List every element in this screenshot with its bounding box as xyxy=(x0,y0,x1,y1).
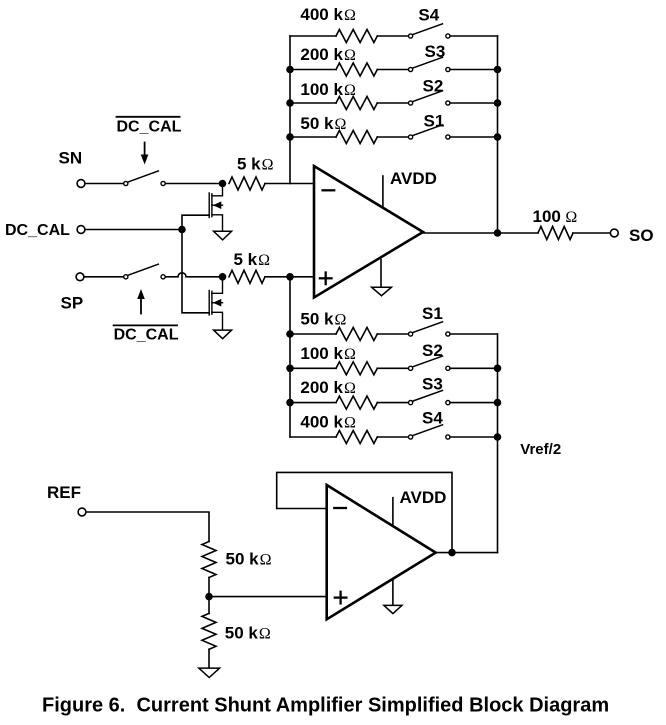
wire: row S4 resistor to switch xyxy=(377,436,408,438)
svg-text:50 kΩ: 50 kΩ xyxy=(225,624,271,643)
switch: SN DC_CAL switch xyxy=(124,171,165,186)
wire: row S2 resistor to switch xyxy=(377,102,408,104)
wire: U2 output to Vref/2 bus xyxy=(436,552,498,554)
wire: U1 output to SO xyxy=(423,232,538,234)
wire: SN terminal to switch xyxy=(85,183,123,185)
svg-text:SO: SO xyxy=(629,226,654,245)
label SN xyxy=(59,149,83,168)
svg-text:SP: SP xyxy=(61,294,84,313)
wire: SP switch to summing node (hop over gate line) xyxy=(166,273,223,277)
wire: AVDD supply stub (U1) xyxy=(382,176,384,207)
node: output / feedback junction xyxy=(494,229,502,237)
label switch S1 (top ladder) xyxy=(424,112,445,131)
switch S1 (top ladder) xyxy=(409,125,451,139)
wire: gate node down to Q2 gate (hops under SP wire) xyxy=(182,230,209,313)
svg-text:100 kΩ: 100 kΩ xyxy=(300,344,356,363)
label: value 200 k ohm xyxy=(300,45,356,64)
label SO xyxy=(629,226,654,245)
wire: row S4 switch to right bus xyxy=(450,436,498,438)
wire: row S2 switch to right bus xyxy=(450,367,498,369)
transistor Q2 (NMOS, lower calibration switch) xyxy=(209,281,222,330)
ground (Q1 source) xyxy=(214,231,232,240)
resistor 400 k&#937; (bot ladder, row S4) xyxy=(336,431,377,444)
terminal SN xyxy=(77,180,85,188)
wire: 100 ohm to SO terminal xyxy=(573,232,610,234)
wire: top ladder row S1 left segment xyxy=(290,136,336,138)
switch S2 (top ladder) xyxy=(409,91,451,105)
label: value 5 k ohm xyxy=(237,155,274,174)
svg-text:S3: S3 xyxy=(422,375,443,394)
wire: U2 feedback loop xyxy=(277,472,452,552)
label: DC_CAL (overline, upper) xyxy=(117,116,180,118)
wire: 5k resistor to op-amp non-inverting input xyxy=(265,276,314,278)
node: DC_CAL gate node xyxy=(178,226,186,234)
label: U2 non-inverting pin (+) xyxy=(335,592,347,604)
svg-text:AVDD: AVDD xyxy=(400,488,447,507)
wire: divider mid xyxy=(208,578,210,597)
wire: bot ladder row S3 left segment xyxy=(290,402,336,404)
switch S4 (top ladder) xyxy=(409,24,451,38)
svg-text:S3: S3 xyxy=(425,42,446,61)
ground (U2) xyxy=(384,580,402,614)
label switch S2 (bottom ladder) xyxy=(422,341,443,360)
resistor 50 k&#937; (bot ladder, row S1) xyxy=(336,328,377,341)
label switch S1 (bottom ladder) xyxy=(422,304,443,323)
node: top ladder left bus junction xyxy=(286,99,294,107)
wire: AVDD supply stub (U2) xyxy=(392,498,394,526)
node: bottom ladder right bus junction xyxy=(494,433,502,441)
svg-text:DC_CAL: DC_CAL xyxy=(114,327,179,344)
wire: top ladder right bus (feedback to output) xyxy=(497,36,499,233)
wire: row S3 switch to right bus xyxy=(450,69,498,71)
switch: SP DC_CAL switch xyxy=(124,264,165,279)
label: U1 inverting pin (-) xyxy=(323,189,335,191)
wire: bottom ladder right bus (Vref/2 net) xyxy=(497,334,499,553)
label DC_CAL (input) xyxy=(5,222,70,239)
svg-text:SN: SN xyxy=(59,149,83,168)
label: value 50 k ohm xyxy=(300,310,346,329)
svg-text:50 kΩ: 50 kΩ xyxy=(300,310,346,329)
wire: DC_CAL terminal to gate node xyxy=(85,229,182,231)
node: top ladder right bus junction xyxy=(494,133,502,141)
wire: row S4 resistor to switch xyxy=(377,35,408,37)
op-amp U2 (Vref/2 buffer) xyxy=(327,485,436,619)
node: SN summing node xyxy=(219,180,227,188)
wire: row S3 switch to right bus xyxy=(450,402,498,404)
node: top ladder right bus junction xyxy=(494,66,502,74)
svg-text:100Ω: 100Ω xyxy=(533,207,578,226)
node: bottom ladder right bus junction xyxy=(494,365,502,373)
op-amp U1 (current shunt amplifier) xyxy=(314,166,423,298)
svg-text:400 kΩ: 400 kΩ xyxy=(300,5,356,24)
label: DC_CAL (overline, lower) xyxy=(114,324,177,326)
label switch S3 (bottom ladder) xyxy=(422,375,443,394)
ground (U1) xyxy=(372,260,392,296)
wire: top ladder row S4 left segment xyxy=(290,35,336,37)
label: value 50 k ohm xyxy=(225,624,271,643)
resistor 200 k&#937; (bot ladder, row S3) xyxy=(336,396,377,409)
node: bottom ladder left bus junction xyxy=(286,399,294,407)
wire: top ladder row S3 left segment xyxy=(290,69,336,71)
svg-text:S2: S2 xyxy=(423,76,444,95)
svg-text:DC_CAL: DC_CAL xyxy=(117,119,182,136)
wire: top ladder left bus xyxy=(289,36,291,184)
wire: row S2 switch to right bus xyxy=(450,102,498,104)
switch S3 (top ladder) xyxy=(409,57,451,71)
wire: DC_CAL actuate arrow (up) xyxy=(137,289,145,314)
svg-text:S2: S2 xyxy=(422,341,443,360)
wire: gate node up to Q1 gate xyxy=(182,215,209,229)
label switch S3 (top ladder) xyxy=(425,42,446,61)
wire: SP terminal to switch xyxy=(84,276,123,278)
terminal SP xyxy=(76,273,84,281)
terminal SO xyxy=(610,229,618,237)
label: value 50 k ohm xyxy=(226,550,272,569)
wire: divider to lower resistor xyxy=(208,597,210,614)
svg-text:200 kΩ: 200 kΩ xyxy=(300,378,356,397)
svg-text:200 kΩ: 200 kΩ xyxy=(300,45,356,64)
label DC_CAL (lower control) xyxy=(114,327,179,344)
transistor Q1 (NMOS, upper calibration switch) xyxy=(209,187,222,230)
label SP xyxy=(61,294,84,313)
node: bottom ladder left bus junction xyxy=(286,330,294,338)
node: top ladder left bus junction xyxy=(286,133,294,141)
ground (Q2 source) xyxy=(214,330,232,339)
label REF xyxy=(47,483,81,502)
svg-text:5 kΩ: 5 kΩ xyxy=(234,250,271,269)
wire: bottom ladder left bus xyxy=(289,277,291,437)
wire: row S2 resistor to switch xyxy=(377,367,408,369)
svg-text:REF: REF xyxy=(47,483,81,502)
switch S3 (bot ladder) xyxy=(409,390,451,404)
svg-text:50 kΩ: 50 kΩ xyxy=(226,550,272,569)
wire: DC_CAL actuate arrow (down) xyxy=(141,143,149,165)
label: figure caption xyxy=(42,695,609,717)
node: top ladder right bus junction xyxy=(494,99,502,107)
label Vref/2 xyxy=(520,441,561,458)
label AVDD (U2) xyxy=(400,488,447,507)
label: value 400 k ohm xyxy=(300,412,356,431)
resistor 100 k&#937; (top ladder, row S2) xyxy=(336,97,377,110)
node: bottom ladder left bus junction xyxy=(286,365,294,373)
wire: 5k resistor to op-amp inverting input xyxy=(265,183,314,185)
resistor 50 k&#937; (divider upper) xyxy=(202,542,216,578)
svg-text:S4: S4 xyxy=(418,5,439,24)
wire: row S1 switch to right bus xyxy=(450,136,498,138)
resistor 100 &#937; (output) xyxy=(538,227,573,240)
label: U2 inverting pin (-) xyxy=(334,507,346,509)
node: + input / bottom bus junction xyxy=(286,273,294,281)
label: U1 non-inverting pin (+) xyxy=(320,273,332,285)
svg-text:5 kΩ: 5 kΩ xyxy=(237,155,274,174)
wire: top ladder row S2 left segment xyxy=(290,102,336,104)
wire: bot ladder row S2 left segment xyxy=(290,367,336,369)
label: value 50 k ohm xyxy=(300,114,346,133)
wire: row S1 resistor to switch xyxy=(377,333,408,335)
resistor 100 k&#937; (bot ladder, row S2) xyxy=(336,362,377,375)
svg-text:50 kΩ: 50 kΩ xyxy=(300,114,346,133)
ground (divider) xyxy=(199,649,220,677)
wire: bot ladder row S4 left segment xyxy=(290,436,336,438)
resistor 50 k&#937; (top ladder, row S1) xyxy=(336,131,377,144)
svg-text:400 kΩ: 400 kΩ xyxy=(300,412,356,431)
wire: divider midpoint to U2 + input xyxy=(209,596,327,598)
wire: row S1 resistor to switch xyxy=(377,136,408,138)
label: value 100 k ohm xyxy=(300,344,356,363)
label switch S4 (top ladder) xyxy=(418,5,439,24)
wire: REF terminal to divider xyxy=(86,512,209,542)
svg-text:DC_CAL: DC_CAL xyxy=(5,222,70,239)
node: U2 feedback junction xyxy=(448,549,456,557)
svg-text:S4: S4 xyxy=(422,409,443,428)
node: SP summing node xyxy=(219,273,227,281)
label switch S4 (bottom ladder) xyxy=(422,409,443,428)
svg-text:Figure 6. Current Shunt Ampli: Figure 6. Current Shunt Amplifier Simpli… xyxy=(42,695,609,717)
label: value 100 k ohm xyxy=(300,80,356,99)
svg-text:100 kΩ: 100 kΩ xyxy=(300,80,356,99)
switch S1 (bot ladder) xyxy=(409,322,451,336)
wire: bot ladder row S1 left segment xyxy=(290,333,336,335)
svg-text:Vref/2: Vref/2 xyxy=(520,441,561,458)
wire: row S4 switch to right bus xyxy=(450,35,498,37)
label: value 5 k ohm xyxy=(234,250,271,269)
label: value 400 k ohm xyxy=(300,5,356,24)
wire: row S1 switch to right bus xyxy=(450,333,498,335)
resistor 50 k&#937; (divider lower) xyxy=(202,613,216,649)
node: top ladder left bus junction xyxy=(286,66,294,74)
label DC_CAL (upper control) xyxy=(117,119,182,136)
terminal REF xyxy=(78,508,86,516)
resistor 200 k&#937; (top ladder, row S3) xyxy=(336,63,377,76)
svg-text:S1: S1 xyxy=(422,304,443,323)
label: value 200 k ohm xyxy=(300,378,356,397)
node: bottom ladder right bus junction xyxy=(494,399,502,407)
label switch S2 (top ladder) xyxy=(423,76,444,95)
wire: row S3 resistor to switch xyxy=(377,69,408,71)
wire: row S3 resistor to switch xyxy=(377,402,408,404)
resistor 400 k&#937; (top ladder, row S4) xyxy=(336,30,377,43)
svg-text:S1: S1 xyxy=(424,112,445,131)
node: divider midpoint xyxy=(205,593,213,601)
svg-text:AVDD: AVDD xyxy=(390,169,437,188)
switch S4 (bot ladder) xyxy=(409,425,451,439)
resistor 5 k&#937; (inverting input) xyxy=(229,177,265,190)
label AVDD (U1) xyxy=(390,169,437,188)
label: value 100 ohm xyxy=(533,207,578,226)
terminal DC_CAL xyxy=(77,226,85,234)
switch S2 (bot ladder) xyxy=(409,356,451,370)
resistor 5 k&#937; (non-inverting input) xyxy=(229,270,265,283)
wire: SN switch to summing node xyxy=(166,183,223,185)
